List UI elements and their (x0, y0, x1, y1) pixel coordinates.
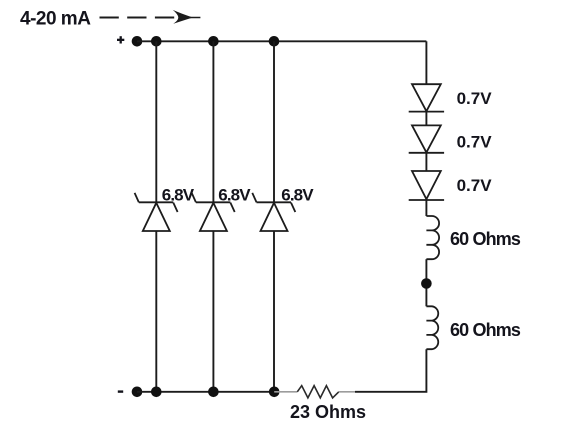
node junction dot bottom branch 3 (269, 387, 280, 398)
current arrow dashed line (100, 16, 177, 18)
wire top horizontal bus (137, 40, 426, 42)
inductor L1 (426, 216, 439, 259)
svg-text:0.7V: 0.7V (457, 176, 493, 195)
minus terminal dot (132, 387, 143, 398)
svg-text:60 Ohms: 60 Ohms (450, 320, 521, 340)
node junction dot top branch 2 (208, 36, 219, 47)
svg-text:6.8V: 6.8V (281, 186, 314, 205)
wire D1 to D2 (425, 112, 427, 126)
svg-text:4-20 mA: 4-20 mA (20, 8, 91, 29)
node junction dot bottom branch 1 (151, 387, 162, 398)
diode D2 (409, 125, 444, 152)
wire branch 3 lower (273, 231, 275, 392)
plus terminal label (117, 36, 124, 43)
resistor R1 lead right (339, 391, 355, 393)
wire D3 to L1 (425, 200, 427, 216)
node junction dot between inductors (421, 278, 432, 289)
zener diode VR1 (135, 193, 178, 231)
wire branch 1 upper (155, 41, 157, 202)
node junction dot bottom branch 2 (208, 387, 219, 398)
inductor L2 (426, 306, 438, 349)
current arrowhead (173, 10, 193, 24)
diode D3 (409, 171, 444, 200)
svg-text:0.7V: 0.7V (457, 89, 493, 108)
node junction dot top branch 3 (269, 36, 280, 47)
wire branch 3 upper (273, 41, 275, 202)
resistor R1 zigzag (297, 386, 339, 398)
svg-text:60 Ohms: 60 Ohms (450, 229, 521, 249)
wire L1 to node (425, 259, 427, 306)
current arrow tail line (183, 17, 200, 19)
minus terminal label (118, 390, 123, 392)
wire right branch top (425, 41, 427, 84)
plus terminal dot (132, 36, 143, 47)
resistor R1 lead left (274, 391, 297, 393)
wire L2 to bottom corner (355, 349, 426, 392)
node junction dot top branch 1 (151, 36, 162, 47)
wire branch 2 upper (212, 41, 214, 202)
wire D2 to D3 (425, 153, 427, 171)
diode D1 (409, 84, 444, 111)
wire branch 2 lower (212, 231, 214, 392)
svg-text:6.8V: 6.8V (218, 186, 251, 205)
svg-text:0.7V: 0.7V (457, 133, 493, 152)
zener diode VR2 (192, 193, 235, 231)
zener diode VR3 (252, 193, 295, 231)
wire branch 1 lower (155, 231, 157, 392)
svg-text:6.8V: 6.8V (162, 186, 195, 205)
svg-text:23 Ohms: 23 Ohms (290, 402, 366, 422)
wire bottom bus (137, 391, 274, 393)
